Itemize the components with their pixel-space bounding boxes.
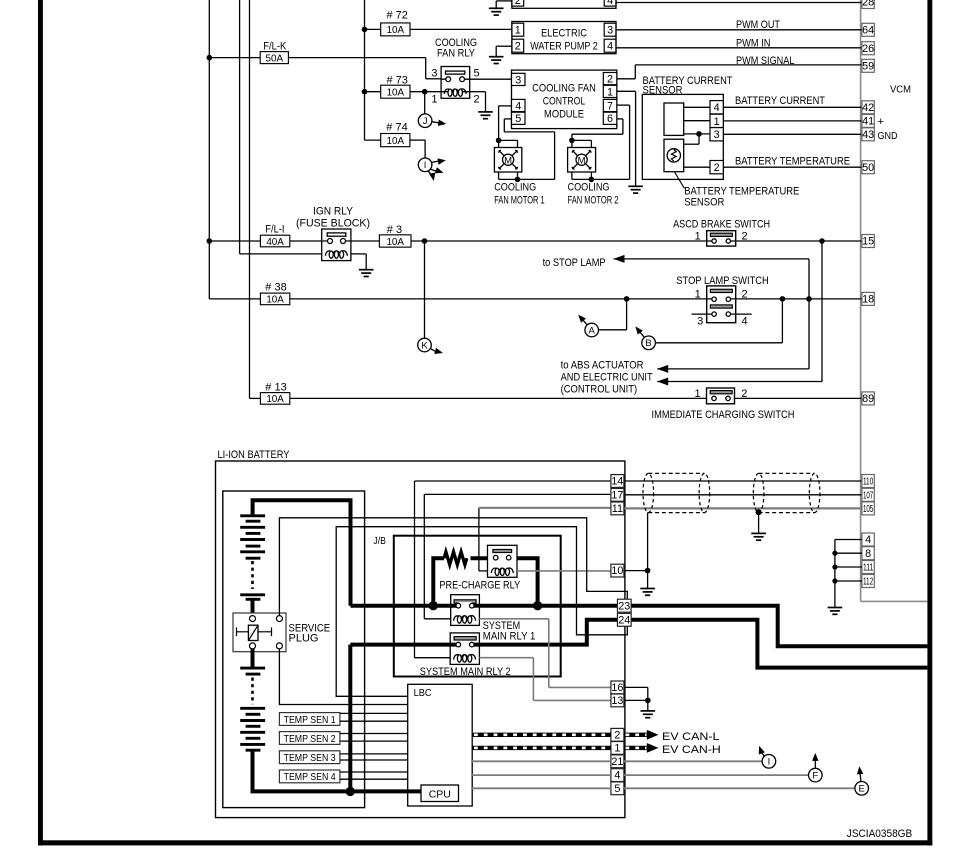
svg-text:89: 89 <box>862 393 874 405</box>
svg-text:7: 7 <box>607 100 613 112</box>
svg-text:10A: 10A <box>387 88 405 99</box>
svg-text:3: 3 <box>697 315 703 327</box>
svg-text:3: 3 <box>431 68 437 80</box>
svg-text:5: 5 <box>515 113 521 125</box>
svg-text:TEMP SEN 3: TEMP SEN 3 <box>284 753 336 764</box>
svg-text:64: 64 <box>862 24 874 36</box>
svg-text:28: 28 <box>862 0 874 9</box>
svg-text:SENSOR: SENSOR <box>684 197 724 209</box>
svg-text:BATTERY CURRENT: BATTERY CURRENT <box>735 95 825 107</box>
svg-text:TEMP SEN 1: TEMP SEN 1 <box>284 715 336 726</box>
svg-text:42: 42 <box>862 102 874 114</box>
svg-text:K: K <box>421 340 428 351</box>
svg-text:# 3: # 3 <box>387 224 402 236</box>
svg-text:B: B <box>645 338 651 349</box>
svg-text:13: 13 <box>611 695 623 707</box>
svg-text:COOLING FAN: COOLING FAN <box>532 83 596 95</box>
svg-text:PWM IN: PWM IN <box>736 37 771 49</box>
svg-text:4: 4 <box>607 41 613 53</box>
svg-text:PRE-CHARGE RLY: PRE-CHARGE RLY <box>439 579 520 591</box>
svg-text:IMMEDIATE CHARGING SWITCH: IMMEDIATE CHARGING SWITCH <box>652 409 795 421</box>
svg-text:+: + <box>878 116 884 128</box>
svg-text:14: 14 <box>611 476 623 488</box>
svg-text:23: 23 <box>618 600 630 612</box>
svg-text:A: A <box>589 325 596 336</box>
svg-text:# 73: # 73 <box>387 74 408 86</box>
svg-text:110: 110 <box>863 477 874 488</box>
svg-text:FAN RLY: FAN RLY <box>437 48 476 60</box>
svg-text:BATTERY TEMPERATURE: BATTERY TEMPERATURE <box>735 155 850 167</box>
svg-text:26: 26 <box>862 43 874 55</box>
svg-text:F/L-I: F/L-I <box>265 224 284 236</box>
svg-text:10A: 10A <box>386 237 404 248</box>
svg-text:6: 6 <box>607 113 613 125</box>
svg-text:I: I <box>424 160 427 171</box>
svg-text:# 38: # 38 <box>265 282 286 294</box>
svg-text:17: 17 <box>611 489 623 501</box>
svg-text:4: 4 <box>742 315 748 327</box>
svg-text:PWM OUT: PWM OUT <box>736 19 780 31</box>
svg-text:WATER PUMP 2: WATER PUMP 2 <box>530 41 598 53</box>
svg-text:4: 4 <box>607 0 613 7</box>
svg-text:1: 1 <box>695 231 701 243</box>
svg-text:16: 16 <box>611 682 623 694</box>
svg-text:10A: 10A <box>266 394 284 405</box>
svg-text:(CONTROL UNIT): (CONTROL UNIT) <box>561 384 638 396</box>
svg-text:4: 4 <box>714 102 720 114</box>
svg-text:3: 3 <box>714 129 720 141</box>
svg-text:F: F <box>812 771 818 782</box>
svg-text:EV CAN-L: EV CAN-L <box>662 731 720 743</box>
svg-text:ELECTRIC: ELECTRIC <box>541 28 587 40</box>
svg-text:21: 21 <box>611 756 623 768</box>
svg-text:1: 1 <box>515 25 521 37</box>
svg-text:MODULE: MODULE <box>544 109 584 121</box>
svg-text:15: 15 <box>862 236 874 248</box>
svg-text:4: 4 <box>614 770 620 782</box>
svg-text:to STOP LAMP: to STOP LAMP <box>543 257 606 269</box>
svg-text:4: 4 <box>515 100 521 112</box>
svg-text:IGN RLY: IGN RLY <box>313 206 354 218</box>
svg-text:SYSTEM MAIN RLY 2: SYSTEM MAIN RLY 2 <box>420 666 511 678</box>
svg-text:5: 5 <box>474 68 480 80</box>
svg-text:59: 59 <box>862 60 874 72</box>
svg-text:I: I <box>768 757 771 768</box>
svg-text:2: 2 <box>515 41 521 53</box>
svg-text:10: 10 <box>611 565 623 577</box>
svg-text:AND ELECTRIC UNIT: AND ELECTRIC UNIT <box>561 372 653 384</box>
svg-text:E: E <box>859 784 865 795</box>
svg-text:CPU: CPU <box>429 788 451 800</box>
svg-text:11: 11 <box>612 503 623 515</box>
svg-text:CONTROL: CONTROL <box>543 96 586 108</box>
svg-text:1: 1 <box>695 288 701 300</box>
svg-text:J: J <box>423 116 428 127</box>
svg-text:112: 112 <box>863 577 873 588</box>
svg-text:J/B: J/B <box>373 535 386 547</box>
svg-text:10A: 10A <box>387 25 405 36</box>
svg-text:# 74: # 74 <box>386 122 407 134</box>
svg-text:50: 50 <box>862 162 874 174</box>
svg-text:PLUG: PLUG <box>289 633 319 645</box>
svg-text:LI-ION BATTERY: LI-ION BATTERY <box>218 449 291 461</box>
svg-text:BATTERY TEMPERATURE: BATTERY TEMPERATURE <box>684 185 799 197</box>
svg-text:EV CAN-H: EV CAN-H <box>662 744 721 756</box>
svg-text:2: 2 <box>474 93 480 105</box>
svg-text:2: 2 <box>515 0 521 7</box>
svg-text:1: 1 <box>614 743 620 755</box>
svg-text:111: 111 <box>863 563 873 574</box>
svg-text:MAIN RLY 1: MAIN RLY 1 <box>483 631 536 643</box>
svg-text:50A: 50A <box>266 53 284 64</box>
svg-text:LBC: LBC <box>414 687 432 699</box>
svg-text:107: 107 <box>863 490 873 501</box>
svg-text:10A: 10A <box>387 136 405 147</box>
svg-text:105: 105 <box>863 504 874 515</box>
svg-text:43: 43 <box>862 129 874 141</box>
svg-text:(FUSE BLOCK): (FUSE BLOCK) <box>296 218 370 230</box>
svg-text:COOLING: COOLING <box>568 182 610 194</box>
svg-text:3: 3 <box>607 25 613 37</box>
svg-text:FAN MOTOR 2: FAN MOTOR 2 <box>568 194 619 206</box>
svg-text:24: 24 <box>618 614 630 626</box>
svg-text:18: 18 <box>862 294 874 306</box>
svg-text:1: 1 <box>431 93 437 105</box>
svg-text:GND: GND <box>878 130 898 142</box>
svg-text:# 13: # 13 <box>265 382 286 394</box>
svg-text:1: 1 <box>714 116 720 128</box>
svg-text:JSCIA0358GB: JSCIA0358GB <box>847 828 912 840</box>
svg-text:to ABS ACTUATOR: to ABS ACTUATOR <box>561 359 644 371</box>
svg-text:10A: 10A <box>266 295 284 306</box>
svg-text:2: 2 <box>607 74 613 86</box>
svg-text:41: 41 <box>862 116 874 128</box>
svg-text:2: 2 <box>614 729 620 741</box>
svg-text:1: 1 <box>694 388 700 400</box>
svg-text:VCM: VCM <box>890 84 911 96</box>
svg-text:COOLING: COOLING <box>494 182 536 194</box>
svg-text:M: M <box>578 155 586 166</box>
svg-text:TEMP SEN 4: TEMP SEN 4 <box>284 772 336 783</box>
svg-text:M: M <box>504 155 512 166</box>
svg-text:40A: 40A <box>266 237 284 248</box>
svg-text:3: 3 <box>515 74 521 86</box>
svg-text:1: 1 <box>607 86 613 98</box>
svg-text:8: 8 <box>865 548 871 560</box>
svg-text:ASCD BRAKE SWITCH: ASCD BRAKE SWITCH <box>673 219 770 231</box>
svg-text:F/L-K: F/L-K <box>263 40 286 52</box>
svg-text:2: 2 <box>742 288 748 300</box>
svg-text:# 72: # 72 <box>387 10 408 22</box>
svg-text:4: 4 <box>865 534 871 546</box>
svg-text:5: 5 <box>614 783 620 795</box>
svg-text:TEMP SEN 2: TEMP SEN 2 <box>284 734 336 745</box>
svg-text:FAN MOTOR 1: FAN MOTOR 1 <box>494 194 545 206</box>
svg-text:2: 2 <box>714 162 720 174</box>
